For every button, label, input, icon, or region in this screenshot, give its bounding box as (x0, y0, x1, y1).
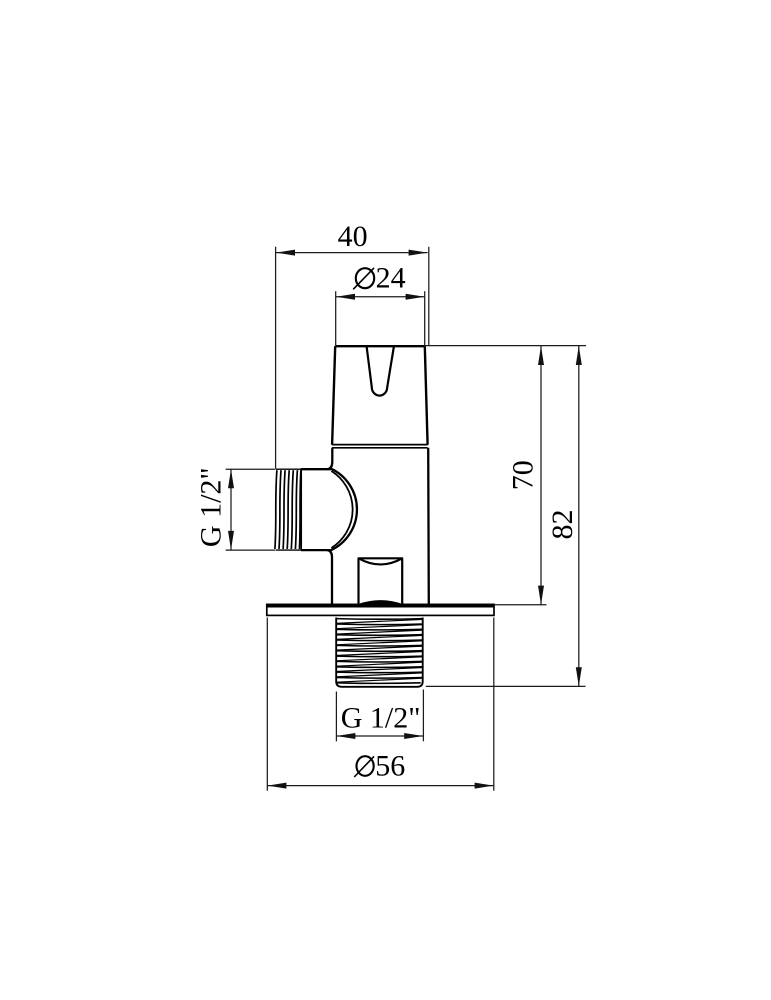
handle base double line (332, 445, 428, 448)
body sphere inner arc (331, 471, 352, 548)
dimension 82 arrows (576, 346, 582, 686)
dimension 70 arrows (538, 346, 544, 605)
dimension D56 arrows (267, 783, 493, 789)
outlet stub (359, 558, 403, 604)
dimension D24 extension lines (336, 291, 425, 346)
svg-text:56: 56 (375, 750, 405, 783)
dimension D24 line (336, 296, 425, 298)
dimension 70 line (540, 346, 542, 605)
dimension G12 left arrows (228, 469, 234, 550)
body sphere outer arc (331, 468, 357, 550)
dimension D24 label (353, 262, 405, 295)
svg-text:G 1/2": G 1/2" (194, 467, 227, 547)
dimension G12 bottom arrows (336, 733, 423, 739)
svg-text:G 1/2": G 1/2" (341, 702, 421, 735)
dimension 40 extension lines (276, 247, 429, 469)
dimension G12 bottom line (336, 735, 423, 737)
valve handle outline (332, 346, 428, 445)
bottom thread lines (336, 619, 423, 684)
dimension D56 extension lines (267, 618, 494, 791)
svg-text:70: 70 (506, 460, 539, 490)
dimension D56 label (354, 750, 405, 783)
bottom thread helix lines (336, 619, 423, 682)
dimension D56 line (267, 785, 493, 787)
thread crescent above flange (359, 602, 402, 606)
side port threads (275, 470, 301, 549)
dimension D24 arrows (336, 294, 425, 300)
dimension 82 line (578, 346, 580, 686)
dimension G12 left extension lines (226, 469, 275, 550)
bottom thread body (336, 618, 423, 687)
dimension G12 left line (230, 469, 232, 550)
dimension 70 extension lines (425, 346, 586, 605)
side port outline (276, 469, 331, 550)
svg-text:40: 40 (338, 220, 368, 253)
dimension 40 arrows (276, 250, 428, 256)
flange plate (267, 604, 494, 615)
handle slot notch (367, 346, 394, 395)
dimension 40 line (276, 252, 428, 254)
svg-text:82: 82 (546, 510, 579, 540)
svg-text:24: 24 (376, 262, 406, 295)
valve body (328, 448, 429, 604)
dimension G12 bottom extension lines (336, 690, 423, 742)
dimension 82 extension line (426, 685, 586, 687)
